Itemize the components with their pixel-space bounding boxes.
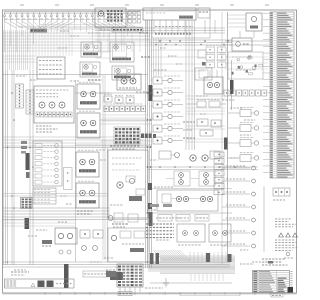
terminal block X4: [117, 264, 143, 287]
title block: [253, 271, 294, 293]
wire table leader stubs: [263, 13, 270, 172]
label row top: [158, 215, 209, 222]
junction comp J2: [195, 50, 212, 80]
connector mark CN9: [148, 183, 173, 209]
wire mid-left bus: [3, 137, 148, 146]
relay K22: [159, 151, 180, 159]
valve group Y1-Y2: [177, 224, 231, 245]
motor M6: [204, 70, 223, 94]
switch panel S3: [33, 141, 62, 186]
connector CN1 label: [112, 28, 143, 32]
wire center mesh: [95, 33, 150, 52]
connector stack CN5: [214, 138, 228, 195]
lamp group L1-L7: [222, 166, 255, 248]
label fuse strip: [30, 29, 47, 33]
label bottom center: [145, 287, 163, 289]
connector CN4: [33, 188, 56, 204]
control box A2: [152, 8, 210, 38]
wire center divider bundle: [103, 75, 105, 260]
wire spine feeders: [154, 38, 162, 76]
scale bar: [118, 292, 240, 296]
resistor R1: [186, 100, 226, 108]
connector mark CN10: [21, 141, 27, 154]
wire under-fuse comb: [36, 30, 72, 57]
junction box JB1: [37, 57, 65, 79]
label group 0201: [88, 33, 150, 80]
pump motor M11: [42, 228, 77, 254]
wire code table: [270, 12, 294, 178]
diode D1: [230, 60, 234, 110]
ground symbol: [163, 278, 169, 287]
junction dots top bus: [155, 40, 229, 45]
relay matrix K6: [114, 127, 156, 144]
connector CN2: [198, 8, 210, 18]
wire label group: [146, 224, 174, 238]
label under matrix: [110, 146, 139, 149]
wire column divider V4: [75, 80, 77, 262]
label symbol note: [273, 199, 285, 201]
label X4 left: [106, 270, 116, 277]
motor M5: [117, 74, 141, 90]
wire column divider V5: [106, 148, 108, 262]
solenoid Y3: [81, 42, 101, 57]
relay group K23-K24: [80, 230, 103, 250]
terminal grid X6: [21, 198, 33, 209]
wire center row links: [102, 115, 148, 121]
wire ladder stubs: [150, 80, 153, 132]
switch S2: [197, 119, 221, 136]
wire center spine bundle: [146, 20, 152, 268]
label plate: [83, 271, 109, 277]
wire crossover fan: [153, 250, 190, 261]
capacitor C2: [26, 153, 30, 178]
wire region divider H2: [3, 219, 149, 221]
wire center links: [75, 93, 152, 145]
capacitor C3: [64, 264, 69, 288]
wire lower-left bus: [3, 194, 110, 227]
wire region divider H1: [3, 147, 151, 149]
wire vertical V3: [263, 186, 265, 252]
wire region divider H0: [3, 74, 149, 76]
wire fuse drop bundle: [5, 22, 128, 53]
motor group M7-M10: [157, 190, 218, 211]
motor M2: [77, 111, 100, 138]
wire right mesh: [186, 96, 225, 142]
wire top supply bus: [4, 12, 140, 13]
solenoid Y6: [112, 66, 134, 80]
capacitor C1: [149, 85, 153, 101]
wire bottom bus: [3, 262, 230, 267]
valve group Y7-Y8: [166, 171, 215, 186]
relay ladder K10-K15: [153, 76, 183, 144]
title block signatures: [262, 259, 287, 265]
wire right-center riser: [186, 20, 195, 150]
wire left riser bundle: [4, 30, 34, 265]
solenoid Y4: [80, 62, 100, 77]
terminal row X5: [224, 90, 267, 96]
wire main vertical V2: [221, 12, 223, 265]
control unit A1: [143, 8, 196, 20]
wire distribution bus rows: [3, 33, 150, 62]
wire harness fan: [148, 252, 235, 283]
connector CN6: [147, 210, 156, 226]
relay K2: [232, 38, 252, 51]
motor M1: [77, 82, 100, 109]
wire fuse feeder bus: [4, 20, 143, 30]
connector grid CN8: [128, 11, 141, 23]
control unit A4: [108, 228, 148, 262]
terminal strip X2: [26, 90, 34, 114]
label row mid: [148, 204, 232, 213]
sensor chain B6-B9: [228, 108, 259, 162]
wire mid-top links: [150, 40, 232, 71]
control unit A3: [108, 150, 148, 218]
sensor group B10: [108, 213, 138, 227]
motor M3: [76, 150, 99, 177]
motor M4: [76, 181, 99, 208]
horn H1: [190, 151, 220, 161]
notes block: [275, 219, 297, 258]
relay group K16-K21: [206, 46, 226, 68]
connector CN7: [150, 253, 232, 264]
fuse box FB1: [34, 86, 74, 123]
label above X3: [11, 272, 29, 275]
wire main vertical V1: [227, 12, 229, 262]
relay row K3-K5: [104, 95, 134, 104]
wire mid bus: [148, 166, 258, 188]
terminal strip X1: [16, 84, 24, 108]
wire X4 drops: [120, 287, 140, 292]
wire harness top center: [95, 20, 225, 33]
fuse bank F1-F22: [4, 12, 136, 28]
switch S1: [246, 13, 262, 31]
capacitor C4: [25, 218, 30, 229]
terminal table T1: [273, 188, 290, 196]
wire center mesh2: [95, 52, 110, 58]
misc wire labels: [14, 30, 264, 270]
fuse block FB2: [110, 272, 123, 280]
wire top right links: [225, 15, 270, 69]
relay box K25: [64, 168, 73, 190]
drawing number box: [271, 294, 283, 298]
label motor group: [77, 211, 93, 214]
connector detail box: [228, 52, 263, 79]
label ladder right: [183, 122, 195, 138]
terminal row X7: [104, 104, 146, 112]
label under fuse box: [36, 126, 58, 132]
terminal strip X3: [5, 279, 75, 288]
relay module K1: [95, 8, 126, 31]
solenoid Y5: [110, 42, 134, 62]
